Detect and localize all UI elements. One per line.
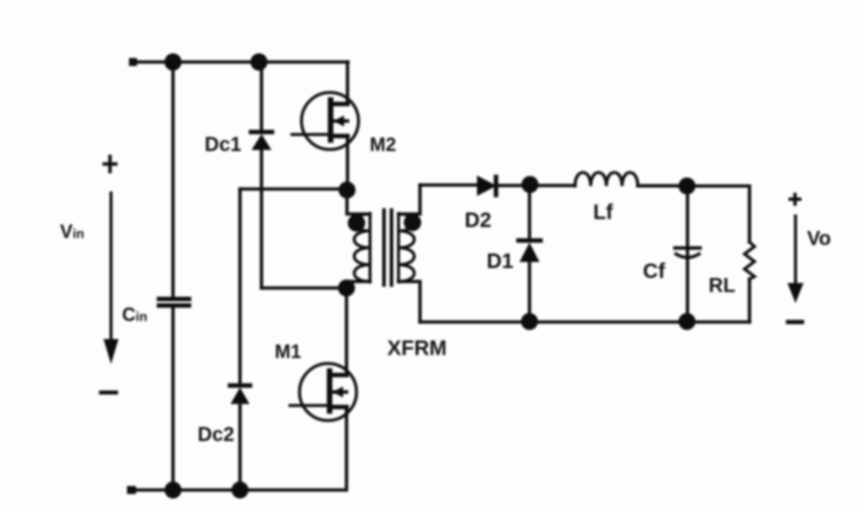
capacitor Cin [159, 297, 189, 302]
diode D1 [519, 238, 541, 243]
wire output bottom rail [420, 320, 750, 323]
diode Dc1 [251, 130, 272, 135]
transistor M2 source wire [346, 136, 349, 190]
label Vo minus [788, 320, 802, 324]
wire input left vertical lower [171, 307, 174, 490]
transistor M1 [300, 364, 357, 421]
wire Dc2 branch vertical lower [238, 404, 241, 490]
transistor M2 [302, 93, 359, 150]
annotation Vin arrow [110, 193, 113, 341]
svg-text:M2: M2 [370, 135, 396, 156]
transformer XFRM secondary winding [397, 214, 400, 283]
wire Dc1 branch vertical upper [260, 62, 263, 131]
diode Dc2 [230, 383, 250, 388]
transistor M1 gate wire [290, 404, 330, 407]
wire D2 to Lf [497, 184, 575, 187]
svg-text:Dc2: Dc2 [198, 424, 235, 446]
svg-text:M1: M1 [275, 342, 302, 363]
wire D1 branch upper [528, 185, 531, 239]
svg-text:Vin: Vin [60, 222, 84, 243]
node top-rail left end [129, 58, 137, 66]
wire Dc2 branch vertical upper [238, 189, 241, 384]
wire Dc1 to primary bottom [262, 286, 348, 289]
svg-text:Lf: Lf [593, 201, 614, 224]
wire RL lower [748, 279, 751, 322]
transformer XFRM primary winding [369, 214, 372, 283]
node junction bottom rail A [165, 482, 182, 499]
transformer XFRM phase dot secondary [404, 214, 421, 231]
node junction top rail A [164, 53, 181, 70]
wire Cf branch [686, 186, 689, 321]
svg-text:Vo: Vo [807, 228, 831, 250]
capacitor Cf [675, 246, 700, 250]
transformer XFRM phase dot primary [348, 214, 365, 231]
node primary top junction [339, 182, 356, 199]
wire clamp node horizontal (primary top to Dc2) [240, 187, 347, 190]
node junction D1 bottom [521, 313, 538, 330]
svg-text:XFRM: XFRM [387, 337, 447, 360]
node junction top rail B [250, 53, 267, 70]
transistor M1 source wire [345, 407, 348, 490]
transistor M2 drain wire [346, 62, 349, 104]
resistor RL [745, 242, 755, 279]
svg-text:D2: D2 [465, 209, 492, 232]
svg-text:Cf: Cf [643, 260, 666, 283]
diode D2 [477, 176, 497, 197]
transformer XFRM core [382, 210, 386, 285]
label Vo plus [790, 195, 800, 205]
annotation Vo arrow [794, 216, 797, 284]
node junction Lf/Cf [679, 178, 696, 195]
wire Dc1 branch vertical lower [260, 150, 263, 288]
wire top rail [133, 60, 348, 63]
node junction D2/D1 [522, 176, 539, 193]
svg-text:Dc1: Dc1 [205, 134, 242, 156]
label Vin plus [104, 157, 116, 172]
node primary bottom junction [338, 280, 355, 297]
transformer XFRM secondary lead top [399, 185, 421, 214]
svg-text:D1: D1 [487, 250, 514, 273]
node junction bottom rail B [232, 482, 249, 499]
wire Lf to Cf node [638, 184, 687, 187]
wire bottom rail [133, 488, 345, 491]
svg-text:RL: RL [709, 275, 736, 297]
transistor M1 drain wire [345, 288, 348, 375]
svg-text:Cin: Cin [122, 305, 147, 326]
transistor M2 gate wire [292, 133, 331, 136]
wire top rail to RL [687, 186, 750, 242]
transformer XFRM primary lead bottom [347, 282, 370, 289]
node junction Cf bottom [679, 313, 696, 330]
wire output top rail left [420, 183, 478, 186]
inductor Lf [575, 173, 638, 187]
wire D1 branch lower [528, 261, 531, 322]
label Vin minus [101, 391, 116, 395]
transformer XFRM primary lead top [347, 190, 370, 214]
transformer XFRM secondary lead bottom [399, 282, 421, 323]
node bottom-rail left end [127, 486, 136, 494]
wire input left vertical [171, 62, 174, 296]
